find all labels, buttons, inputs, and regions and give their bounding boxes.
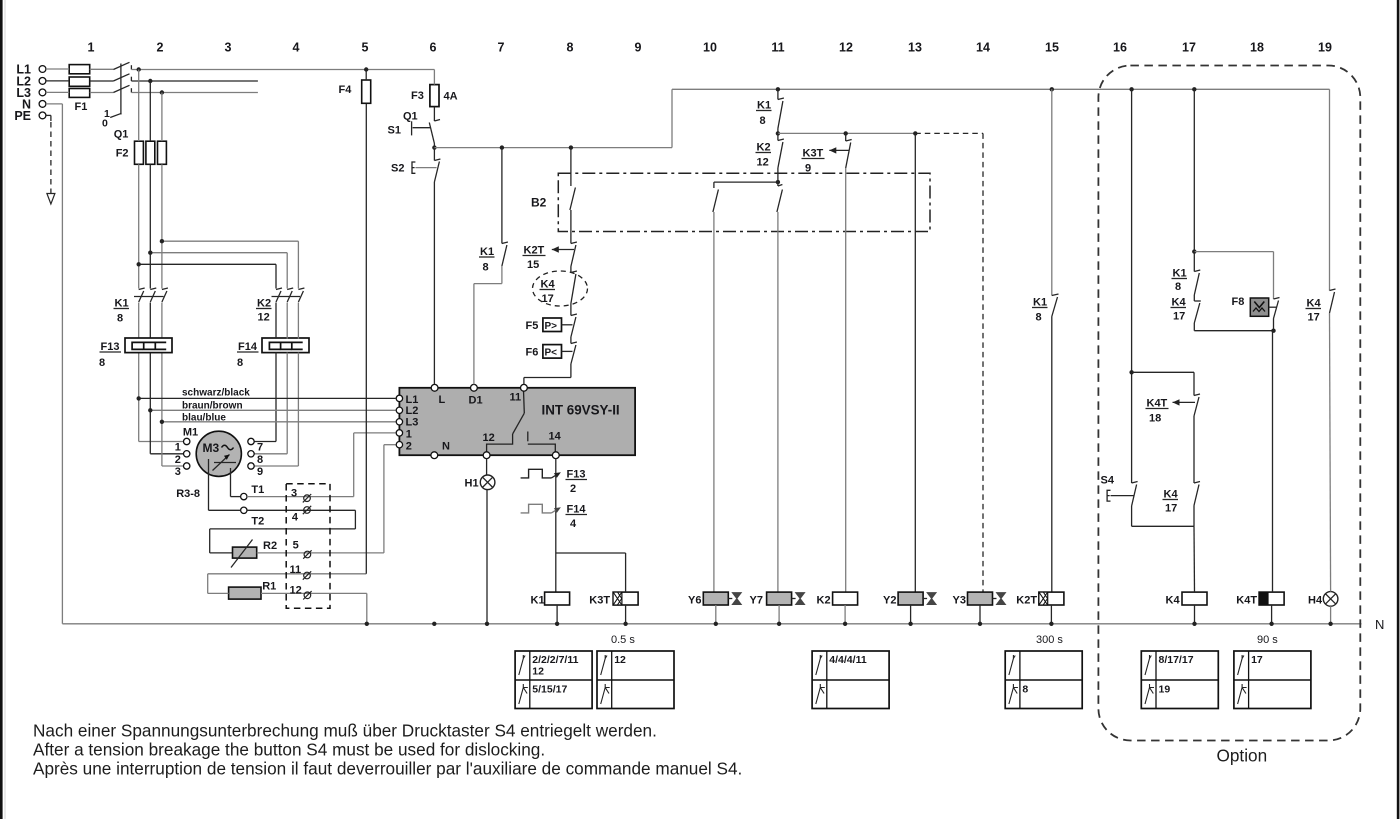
svg-text:90 s: 90 s: [1257, 634, 1278, 646]
svg-text:8: 8: [1022, 684, 1028, 696]
wire terminal 12 row through R1 to N rail: [208, 593, 367, 623]
svg-text:17: 17: [1165, 503, 1177, 515]
node F8 branch top: [1192, 249, 1196, 253]
svg-text:S2: S2: [391, 163, 404, 175]
svg-text:D1: D1: [469, 395, 483, 407]
svg-text:10: 10: [703, 41, 717, 55]
circuit breaker Q1: [102, 62, 131, 140]
svg-text:K1: K1: [531, 595, 545, 607]
svg-text:K4: K4: [1166, 595, 1181, 607]
svg-text:S4: S4: [1101, 475, 1115, 487]
svg-text:H4: H4: [1308, 595, 1323, 607]
svg-text:F6: F6: [526, 347, 539, 359]
svg-text:K1: K1: [1173, 268, 1187, 280]
svg-text:8: 8: [760, 115, 766, 127]
svg-text:K4: K4: [1172, 297, 1187, 309]
svg-text:K1: K1: [1033, 297, 1047, 309]
auxiliary contact K4/17 (sub-box): [1163, 482, 1201, 527]
svg-text:PE: PE: [14, 109, 31, 123]
voltage monitor F8: [1232, 296, 1280, 331]
svg-text:K2: K2: [817, 595, 831, 607]
svg-text:Q1: Q1: [114, 129, 129, 141]
svg-text:Option: Option: [1217, 746, 1268, 766]
svg-text:7: 7: [498, 41, 505, 55]
cross-reference table K4T: [1234, 651, 1311, 709]
svg-text:Y2: Y2: [883, 595, 896, 607]
resistor R2 (variable): [231, 540, 277, 568]
svg-text:Après une interruption de tens: Après une interruption de tension il fau…: [33, 759, 742, 779]
svg-text:F14: F14: [238, 341, 258, 353]
wire phase drop 3 (blau): [162, 93, 184, 467]
wire T1 to INT pin 1: [247, 433, 396, 497]
wire phase L1 top rail: [46, 68, 435, 71]
wire phase drop 1 (to F2/K1 pole1, schwarz): [139, 70, 184, 442]
wire sub-box top link: [1132, 371, 1194, 373]
svg-text:3: 3: [291, 488, 297, 500]
fuse F2 (3 poles): [116, 141, 167, 164]
contactor K1 main contacts: [114, 288, 168, 325]
svg-text:H1: H1: [465, 478, 479, 490]
pushbutton S4: [1101, 475, 1138, 527]
relay coil K4: [1166, 592, 1208, 606]
svg-text:9: 9: [635, 41, 642, 55]
svg-text:K4: K4: [1307, 298, 1322, 310]
wire F8 branch bottom link: [1194, 329, 1275, 593]
svg-text:2: 2: [175, 454, 181, 466]
page border left: [0, 0, 3, 819]
node S4 sub-box top: [1129, 370, 1133, 374]
timer coil K4T: [1236, 592, 1284, 606]
svg-text:T2: T2: [251, 516, 264, 528]
svg-text:4: 4: [292, 512, 299, 524]
sensor terminal T2: [241, 507, 265, 527]
N bottom rail: [62, 617, 1384, 632]
wire schwarz/black to INT L1: [139, 388, 396, 399]
svg-text:F4: F4: [339, 84, 353, 96]
wire motor sensor to T1: [231, 468, 241, 497]
node K4T chain junction on rail: [1192, 87, 1196, 91]
protection module U1 INT 69VSY-II: [399, 388, 635, 455]
svg-text:3: 3: [225, 41, 232, 55]
wire motor sensor to T2: [209, 470, 241, 510]
svg-text:M1: M1: [183, 427, 198, 439]
wire phase drop 2 (braun): [150, 81, 183, 454]
wire H1 to N rail: [486, 490, 488, 624]
timer coil K2T: [1016, 592, 1064, 606]
node S1 output junction: [432, 145, 436, 149]
node jog1: [137, 262, 141, 266]
svg-text:8: 8: [1175, 281, 1181, 293]
svg-text:3: 3: [175, 466, 181, 478]
svg-text:Y3: Y3: [953, 595, 966, 607]
svg-text:K3T: K3T: [589, 595, 610, 607]
thermal overload F13: [99, 338, 172, 369]
svg-text:4A: 4A: [444, 91, 458, 103]
svg-text:14: 14: [976, 41, 990, 55]
svg-text:19: 19: [1159, 684, 1171, 696]
valve coil Y7: [750, 592, 805, 606]
svg-text:7: 7: [257, 442, 263, 454]
node braun junction: [148, 408, 152, 412]
wire K2 pole drops to motor: [254, 303, 298, 467]
svg-text:K1: K1: [757, 100, 771, 112]
svg-text:5: 5: [293, 540, 299, 552]
node S4 chain junction on rail: [1129, 87, 1133, 91]
contactor K2 main contacts: [256, 288, 304, 324]
wire U1 pin 12 to H1: [486, 459, 488, 475]
wire S4 chain vertical: [1131, 89, 1133, 483]
svg-text:L: L: [439, 394, 446, 406]
delayed contact K2T/15: [523, 232, 577, 273]
wire jog to K2 pole2: [150, 253, 287, 289]
svg-text:1: 1: [175, 442, 181, 454]
wire Y3 dashed feed: [982, 133, 984, 592]
svg-text:K1: K1: [480, 246, 494, 258]
valve coil Y2: [883, 592, 936, 606]
motor terminal circles 1,2,3: [175, 438, 190, 478]
svg-text:After a tension breakage the b: After a tension breakage the button S4 m…: [33, 740, 545, 760]
svg-text:B2: B2: [531, 196, 547, 210]
valve coil Y3: [953, 592, 1006, 606]
svg-text:11: 11: [510, 392, 522, 404]
svg-text:P>: P>: [545, 321, 558, 332]
wire control rail to column 10: [434, 89, 1329, 147]
svg-text:9: 9: [257, 466, 263, 478]
wire L1 rail into F3: [433, 70, 435, 85]
svg-text:L2: L2: [406, 405, 419, 417]
svg-text:2/2/2/7/11: 2/2/2/7/11: [532, 654, 578, 666]
wire Y2 feed: [914, 133, 916, 592]
fuse F3 with 4A: [411, 85, 458, 107]
node schwarz junction: [137, 396, 141, 400]
svg-text:8: 8: [117, 313, 123, 325]
svg-text:P<: P<: [545, 348, 558, 359]
svg-text:F1: F1: [75, 101, 88, 113]
machine terminal strip (dashed) with terminals 3,4,5,11,12: [286, 484, 330, 609]
svg-text:8: 8: [1036, 312, 1042, 324]
page border right: [1397, 0, 1400, 819]
node Y2 branch: [913, 131, 917, 135]
svg-text:12: 12: [258, 312, 270, 324]
wire PE with earth arrow: [46, 115, 55, 204]
svg-text:11: 11: [771, 41, 784, 55]
auxiliary contact K1/8 (col 15, K2T coil feed): [1032, 89, 1059, 592]
wire jog to K2 pole3: [162, 241, 299, 288]
reset pulse output to F13/2: [521, 469, 587, 496]
column header numbers 1-19: [88, 41, 1332, 55]
svg-text:2: 2: [157, 41, 164, 55]
svg-text:K4: K4: [541, 279, 556, 291]
svg-text:12: 12: [290, 585, 302, 597]
supply terminal circles: [39, 66, 46, 119]
node K2T coil branch on top rail: [1050, 87, 1054, 91]
svg-text:8/17/17: 8/17/17: [1159, 654, 1194, 666]
U1 internal relay contact: [487, 390, 556, 452]
svg-text:12: 12: [839, 41, 853, 55]
svg-text:15: 15: [1045, 41, 1059, 55]
B2 contact 1: [570, 173, 576, 231]
svg-text:9: 9: [805, 163, 811, 175]
U1 terminal circles bottom: [431, 452, 559, 459]
motor terminal circles 7,8,9: [248, 438, 263, 478]
pressure switch F5 (P>): [526, 314, 577, 344]
node K3T branch: [844, 131, 848, 135]
svg-text:0.5 s: 0.5 s: [611, 634, 635, 646]
cross-reference table K2T: [1005, 651, 1082, 709]
sensor terminal T1: [241, 484, 265, 500]
switch S1 (Q1 auxiliary): [388, 107, 441, 148]
svg-text:Q1: Q1: [403, 111, 418, 123]
node D1 branch: [500, 145, 504, 149]
svg-text:Y7: Y7: [750, 595, 763, 607]
svg-text:12: 12: [483, 432, 495, 444]
lamp H4: [1308, 592, 1338, 624]
svg-text:19: 19: [1318, 41, 1332, 55]
svg-text:8: 8: [99, 357, 105, 369]
svg-text:K2T: K2T: [1016, 595, 1037, 607]
cross-reference table K1: [515, 651, 592, 709]
reset pulse output to F14/4: [521, 504, 587, 531]
node L3/Q1 junction: [160, 90, 164, 94]
auxiliary contact K2/12: [756, 133, 784, 173]
wire F6 to U1 pin 11: [524, 364, 571, 384]
svg-text:17: 17: [542, 293, 554, 305]
delayed contact K3T/9: [802, 133, 852, 592]
svg-text:R2: R2: [263, 540, 277, 552]
wire phase L2 rail: [46, 80, 258, 82]
auxiliary contact K4/17 (H4 chain): [1306, 89, 1336, 591]
U1 terminal circles left: [396, 395, 402, 448]
svg-text:2: 2: [570, 483, 576, 495]
svg-text:F5: F5: [526, 320, 539, 332]
svg-text:K3T: K3T: [803, 148, 824, 160]
wire phase L3 rail: [46, 91, 258, 93]
svg-text:K4T: K4T: [1147, 398, 1168, 410]
svg-text:K1: K1: [115, 298, 129, 310]
thermal overload F14: [237, 338, 309, 369]
sensor block B2 (dash-dot box): [531, 173, 930, 231]
svg-text:F3: F3: [411, 90, 424, 102]
svg-text:M3: M3: [203, 441, 220, 455]
valve coil Y6: [688, 592, 741, 606]
relay coil K1: [531, 592, 570, 606]
svg-text:14: 14: [549, 431, 562, 443]
node K2T branch: [569, 145, 573, 149]
wire link 11-12: [207, 574, 209, 594]
svg-text:4/4/4/11: 4/4/4/11: [829, 654, 867, 666]
svg-text:12: 12: [614, 654, 626, 666]
node L1/Q1 junction: [137, 67, 141, 71]
svg-text:L3: L3: [406, 416, 419, 428]
svg-text:15: 15: [527, 259, 539, 271]
svg-text:17: 17: [1308, 312, 1320, 324]
supply terminal labels L1 L2 L3 N PE: [14, 63, 31, 123]
svg-text:300 s: 300 s: [1036, 634, 1063, 646]
auxiliary contact K1/8 (col 11): [756, 89, 784, 133]
lamp H1: [465, 475, 495, 490]
svg-text:0: 0: [102, 118, 108, 130]
svg-text:K4: K4: [1164, 489, 1179, 501]
auxiliary contact K1/8 (D1 chain): [474, 148, 508, 385]
wire R2 to INT pin 2 via terminal 5: [257, 445, 396, 553]
svg-text:1: 1: [88, 41, 95, 55]
wire coil bottoms to N rail: [557, 605, 1272, 624]
svg-text:18: 18: [1250, 41, 1264, 55]
svg-text:schwarz/black: schwarz/black: [182, 388, 250, 399]
auxiliary contact K4/17 NC (option): [1171, 295, 1201, 331]
wire terminal 11 row from F4: [208, 103, 367, 574]
contactor contact K4/17 in dashed ellipse: [533, 271, 588, 316]
svg-text:K2: K2: [257, 298, 271, 310]
svg-text:17: 17: [1173, 311, 1185, 323]
svg-text:N: N: [1375, 617, 1384, 632]
node dots on N rail: [365, 622, 1333, 626]
svg-text:5: 5: [362, 41, 369, 55]
pressure switch F6 (P<): [526, 342, 577, 364]
svg-text:F13: F13: [101, 341, 120, 353]
svg-text:17: 17: [1182, 41, 1196, 55]
B2 internal link wire: [714, 180, 780, 184]
timer coil K3T: [589, 592, 638, 606]
svg-text:K2: K2: [757, 142, 771, 154]
wire blau/blue to INT L3: [162, 412, 396, 423]
node L2/Q1 junction: [148, 79, 152, 83]
node blau junction: [160, 420, 164, 424]
wire N down to bottom rail: [46, 104, 63, 624]
node jog2: [148, 251, 152, 255]
svg-text:8: 8: [483, 262, 489, 274]
svg-text:F2: F2: [116, 148, 129, 160]
svg-text:8: 8: [257, 454, 263, 466]
wire T2 to R2: [210, 510, 356, 553]
fuse F1: [69, 65, 90, 113]
Option dashed boundary box: [1098, 66, 1360, 766]
svg-text:1: 1: [406, 428, 412, 440]
svg-text:F14: F14: [567, 504, 587, 516]
svg-text:K2T: K2T: [524, 245, 545, 257]
relay coil K2: [817, 592, 858, 606]
svg-text:INT 69VSY-II: INT 69VSY-II: [542, 403, 620, 418]
svg-text:Nach einer Spannungsunterbrech: Nach einer Spannungsunterbrechung muß üb…: [33, 721, 657, 741]
cross-reference table K3T: [597, 651, 674, 709]
svg-text:8: 8: [237, 357, 243, 369]
svg-text:R1: R1: [262, 581, 276, 593]
auxiliary contact K1/8 (option): [1172, 252, 1201, 295]
resistor R1: [229, 581, 277, 600]
cross-reference table K2: [812, 651, 889, 709]
svg-text:S1: S1: [388, 125, 401, 137]
fuse F4: [339, 80, 371, 103]
wire F8 branch top link: [1194, 252, 1273, 299]
svg-text:17: 17: [1251, 654, 1263, 666]
motor M1 (M3~): [176, 427, 241, 501]
U1 terminal circles top: [431, 384, 527, 391]
wire jog to K2 pole1: [139, 264, 276, 288]
svg-text:F13: F13: [567, 469, 586, 481]
node sub-rail junction: [776, 131, 780, 135]
svg-text:K4T: K4T: [1236, 595, 1257, 607]
svg-text:L1: L1: [406, 394, 419, 406]
svg-text:F8: F8: [1232, 296, 1245, 308]
wire pin14 branch to K3T: [556, 553, 626, 592]
svg-text:R3-8: R3-8: [176, 488, 200, 500]
svg-text:16: 16: [1113, 41, 1127, 55]
wire F4 top: [365, 70, 367, 81]
B2 contact 3 (Y7 feed): [777, 173, 783, 592]
svg-text:4: 4: [293, 41, 300, 55]
wire sub-rail y133: [778, 132, 983, 134]
B2 contact 2 (Y6 feed): [713, 182, 719, 592]
svg-text:18: 18: [1149, 413, 1161, 425]
svg-text:4: 4: [570, 518, 577, 530]
svg-text:2: 2: [406, 440, 412, 452]
node F4 junction on L1 rail: [364, 67, 368, 71]
svg-text:Y6: Y6: [688, 595, 701, 607]
svg-text:11: 11: [290, 564, 302, 576]
svg-text:N: N: [442, 441, 450, 453]
delayed contact K4T/18: [1146, 372, 1201, 483]
wire K4T chain from rail: [1193, 89, 1195, 251]
svg-text:13: 13: [908, 41, 922, 55]
svg-text:5/15/17: 5/15/17: [532, 684, 567, 696]
node K1 aux branch col 11: [776, 87, 780, 91]
svg-text:6: 6: [430, 41, 437, 55]
wire sub-box bottom to K4 coil: [1132, 526, 1195, 592]
node jog3: [160, 239, 164, 243]
switch S2 (manual): [391, 148, 440, 385]
wire K2T chain top: [570, 148, 572, 174]
svg-text:12: 12: [757, 157, 769, 169]
svg-text:8: 8: [567, 41, 574, 55]
wire braun/brown to INT L2: [150, 400, 395, 411]
svg-text:12: 12: [532, 666, 544, 678]
wire U1 pin 14 down: [555, 459, 557, 592]
svg-text:T1: T1: [251, 484, 264, 496]
cross-reference table K4: [1141, 651, 1218, 709]
